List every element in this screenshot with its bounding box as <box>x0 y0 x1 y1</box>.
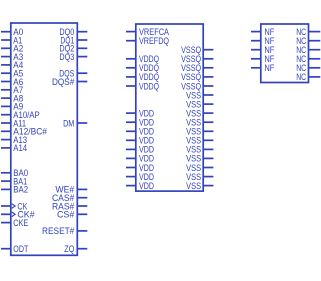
pin DQS# <box>52 77 87 88</box>
pin VREFCA <box>126 27 170 38</box>
pin A6 <box>1 77 23 88</box>
pin A4 <box>1 60 23 71</box>
pin VSSQ <box>181 54 213 65</box>
svg-text:ZQ: ZQ <box>64 244 74 255</box>
pin CK# <box>1 210 35 221</box>
pin VSSQ <box>181 45 213 56</box>
svg-text:DM: DM <box>63 118 74 129</box>
pin VSS <box>186 127 213 138</box>
pin A9 <box>1 102 23 113</box>
svg-text:DQS#: DQS# <box>52 77 75 88</box>
pin A12/BC# <box>1 127 48 138</box>
pin RAS# <box>52 201 87 212</box>
pin A3 <box>1 52 23 63</box>
pin VDD <box>126 181 154 192</box>
svg-text:VREFDQ: VREFDQ <box>139 36 169 47</box>
IC U1 body <box>11 23 78 255</box>
pin VSS <box>186 90 213 101</box>
pin VSS <box>186 136 213 147</box>
pin A10/AP <box>1 110 40 121</box>
svg-text:VDDQ: VDDQ <box>139 81 159 92</box>
pin CK <box>1 201 28 212</box>
pin NF <box>251 63 275 74</box>
pin VSSQ <box>181 63 213 74</box>
pin NC <box>296 54 320 65</box>
svg-text:BA2: BA2 <box>13 185 28 196</box>
pin NC <box>296 63 320 74</box>
pin VSS <box>186 163 213 174</box>
svg-text:CKE: CKE <box>13 218 28 229</box>
pin NF <box>251 36 275 47</box>
pin VDD <box>126 172 154 183</box>
svg-text:NF: NF <box>264 63 274 74</box>
pin VREFDQ <box>126 36 169 47</box>
pin VDD <box>126 108 154 119</box>
pin VDD <box>126 127 154 138</box>
pin NF <box>251 27 275 38</box>
pin BA1 <box>1 176 27 187</box>
pin NC <box>296 72 320 83</box>
pin VDD <box>126 154 154 165</box>
IC U2 body <box>136 24 203 191</box>
pin VDD <box>126 136 154 147</box>
pin NF <box>251 45 275 56</box>
pin VSSQ <box>181 72 213 83</box>
pin NC <box>296 45 320 56</box>
pin VDDQ <box>126 81 159 92</box>
pin DQ1 <box>60 35 87 46</box>
pin CAS# <box>52 193 87 204</box>
pin DQ0 <box>59 27 87 38</box>
pin VSS <box>186 108 213 119</box>
pin ODT <box>1 244 28 255</box>
pin A0 <box>1 27 23 38</box>
pin A5 <box>1 69 23 80</box>
pin A14 <box>1 143 27 154</box>
svg-text:DQ3: DQ3 <box>59 52 74 63</box>
pin VSSQ <box>181 81 213 92</box>
pin DQ3 <box>59 52 87 63</box>
pin VSS <box>186 145 213 156</box>
pin ZQ <box>64 244 87 255</box>
pin A7 <box>1 85 23 96</box>
pin NF <box>251 54 275 65</box>
pin VSS <box>186 154 213 165</box>
svg-text:VDD: VDD <box>139 181 154 192</box>
svg-text:VSS: VSS <box>186 181 201 192</box>
pin VSS <box>186 172 213 183</box>
pin CS# <box>57 210 87 221</box>
pin RESET# <box>42 226 87 237</box>
pin A11 <box>1 118 26 129</box>
pin DM <box>63 118 87 129</box>
pin VDD <box>126 118 154 129</box>
svg-text:A14: A14 <box>13 143 27 154</box>
pin VDD <box>126 145 154 156</box>
pin BA0 <box>1 168 28 179</box>
pin VDD <box>126 163 154 174</box>
svg-text:ODT: ODT <box>13 244 28 255</box>
pin NC <box>296 36 320 47</box>
svg-text:CS#: CS# <box>57 210 75 221</box>
pin VSS <box>186 118 213 129</box>
pin VSS <box>186 99 213 110</box>
pin DQ2 <box>59 44 87 55</box>
pin A13 <box>1 135 27 146</box>
pin VDDQ <box>126 72 159 83</box>
pin BA2 <box>1 185 28 196</box>
pin A2 <box>1 44 23 55</box>
pin A8 <box>1 93 23 104</box>
IC U3 body <box>261 24 309 83</box>
pin VDDQ <box>126 63 159 74</box>
pin VDDQ <box>126 54 159 65</box>
svg-text:NC: NC <box>296 72 306 83</box>
pin A1 <box>1 35 22 46</box>
pin WE# <box>55 185 87 196</box>
pin DQS <box>59 69 87 80</box>
svg-text:RESET#: RESET# <box>42 226 75 237</box>
pin VSS <box>186 181 213 192</box>
pin CKE <box>1 218 28 229</box>
pin NC <box>296 27 320 38</box>
